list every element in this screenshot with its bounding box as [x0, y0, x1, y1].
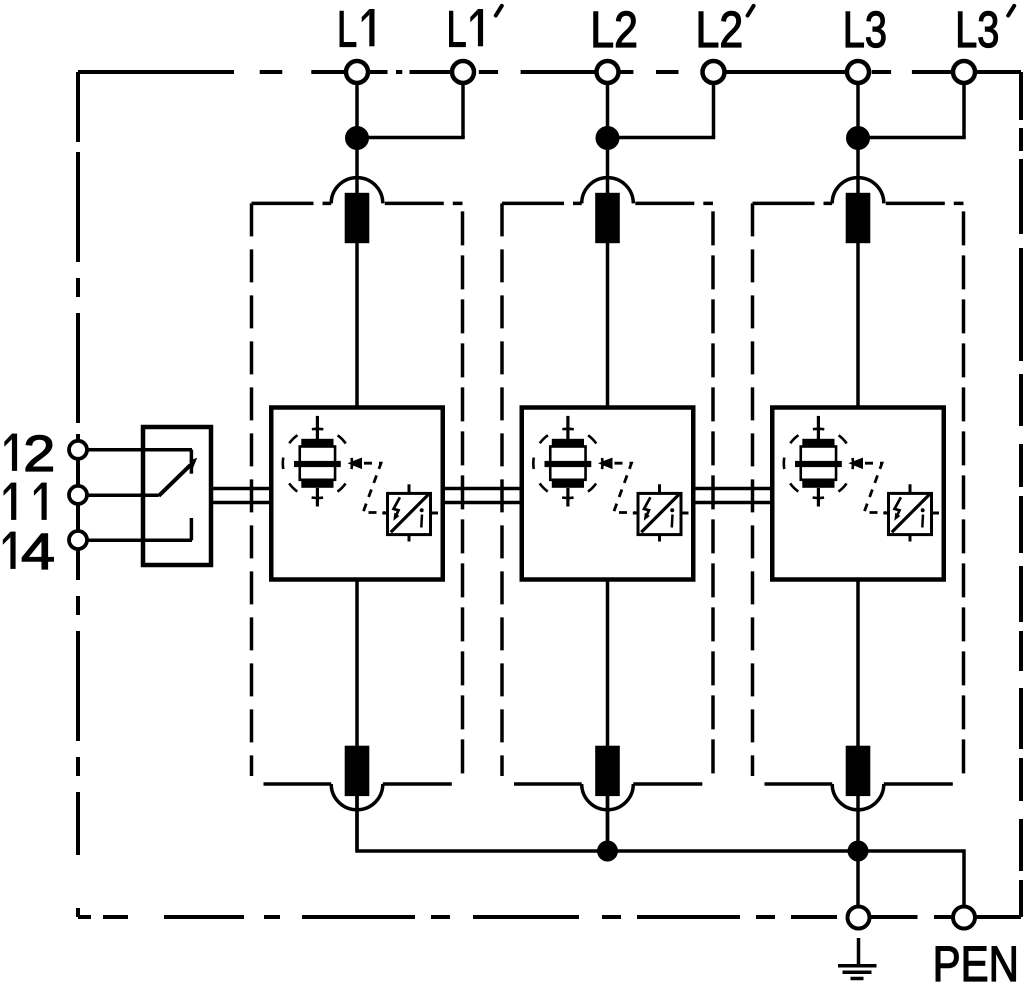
- svg-text:PEN: PEN: [933, 936, 1019, 992]
- svg-text:L3: L3: [843, 1, 887, 58]
- svg-text:L: L: [447, 0, 467, 57]
- svg-text:L3: L3: [955, 1, 999, 58]
- svg-text:L: L: [337, 0, 357, 57]
- svg-text:L2: L2: [696, 1, 744, 58]
- svg-text:4: 4: [21, 523, 55, 580]
- svg-text:2: 2: [23, 425, 55, 482]
- svg-text:L2: L2: [590, 1, 638, 58]
